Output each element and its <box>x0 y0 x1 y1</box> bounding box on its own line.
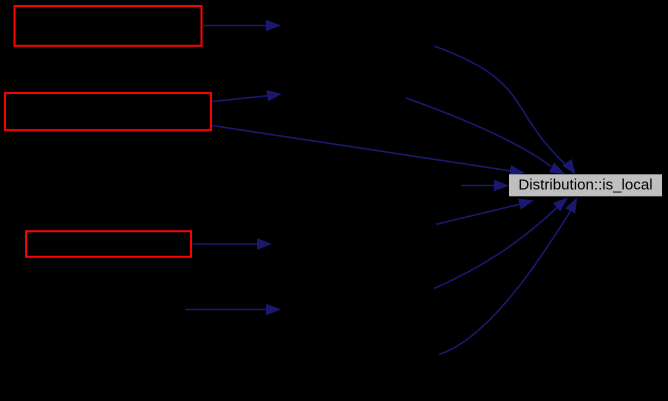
svg-text:Distribution::is_local: Distribution::is_local <box>518 177 652 194</box>
node caller2 (red box, hidden label) <box>5 93 211 130</box>
edge B hidden node M2 to Distribution::is_local <box>406 98 565 174</box>
edge D hidden node to Distribution::is_local (short horizontal) <box>461 180 509 191</box>
edge hidden caller4 to hidden node M4 <box>185 304 281 315</box>
edge C caller2 to Distribution::is_local <box>212 126 525 177</box>
node Distribution::is_local (current node, grey) <box>509 174 662 196</box>
edge caller3 to hidden node M3 <box>193 238 273 249</box>
edge G hidden node M5 to Distribution::is_local (bottom curve) <box>439 198 577 355</box>
edge caller2 to hidden node M2 <box>212 90 282 102</box>
edge A hidden node M1 to Distribution::is_local (top curve) <box>434 46 576 175</box>
edge caller1 to hidden node M1 <box>203 20 281 31</box>
edge E hidden node M3 to Distribution::is_local <box>436 199 534 225</box>
node caller1 (red box, hidden label) <box>15 6 202 46</box>
node caller3 (red box, hidden label) <box>26 231 191 257</box>
edge F hidden node M4 to Distribution::is_local <box>434 198 568 289</box>
